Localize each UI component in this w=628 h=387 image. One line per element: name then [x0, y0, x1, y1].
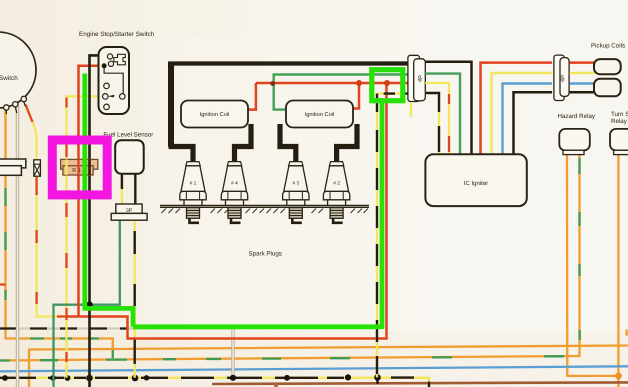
spark plug #4: [221, 162, 247, 223]
wire: yellow/red Y-R no.1 from switch terminal through fuse down, jog right at y=316.5: [26, 105, 67, 317]
svg-text:Ignition Coil: Ignition Coil: [200, 111, 230, 118]
svg-text:IC Igniter: IC Igniter: [464, 180, 488, 187]
svg-text:# 1: # 1: [190, 181, 197, 187]
wire: yellow to pickup coil 1: [570, 72, 596, 74]
svg-text:Spark Plugs: Spark Plugs: [249, 251, 282, 258]
junction dots on B/Y bus: [2, 374, 381, 384]
annotation: magenta highlight box: [52, 140, 107, 195]
wire: red stub at left edge: [0, 283, 6, 285]
wire: white wire vertical x=233 down to B/Y bus: [231, 329, 234, 378]
switch terminal stubs: [6, 102, 25, 114]
hazard relay: [559, 129, 590, 151]
wire: brown bus along bottom edge: [212, 382, 628, 384]
wire: black/white B-W dashed line, left bottom: [0, 327, 233, 329]
wire: HT lead coil2 to spark plug 2: [337, 124, 357, 162]
wire: black 4P to IC igniter: [425, 62, 471, 155]
wire: thick black top rail to 4P connector: [169, 61, 408, 65]
fuel level sensor body: [115, 140, 144, 174]
svg-text:Pickup Coils: Pickup Coils: [591, 43, 625, 50]
svg-text:Hazard Relay: Hazard Relay: [558, 113, 596, 120]
wire: yellow w/ black dash B-Y from 4P connector left, down to bus: [377, 94, 407, 378]
wire: red from right 4P down to IC igniter: [481, 63, 553, 155]
wire: yellow/red 4P to IC igniter: [425, 83, 449, 154]
wire: HT lead coil1 to spark plug 1: [169, 147, 194, 162]
svg-text:4P: 4P: [417, 75, 424, 83]
wire: green primary to coil 2 and to 4P connector: [274, 75, 408, 110]
wire: white wire from switch terminal down full height x=17.5: [16, 106, 19, 387]
turn signal relay (clipped at edge): [610, 129, 628, 151]
junction: dot inside stop switch on red feed: [102, 63, 107, 68]
wire: green 4P to IC igniter: [425, 74, 460, 155]
IC igniter box: [425, 154, 526, 206]
ground hatching: [162, 209, 369, 214]
svg-text:Turn Si: Turn Si: [611, 111, 628, 118]
svg-text:Ignition Coil: Ignition Coil: [305, 111, 335, 118]
wire: black/yellow B-Y from fuel sensor 3P down to bus: [134, 220, 136, 378]
ignition coil 1 body: [181, 101, 248, 128]
wire: fuel sensor right lead black: [134, 174, 136, 204]
engine stop/starter switch body: [99, 47, 130, 114]
spark plug #1: [180, 162, 206, 223]
svg-text:Relay: Relay: [611, 118, 628, 125]
svg-text:4P: 4P: [560, 75, 567, 83]
wire: HT lead coil2 to spark plug 3: [280, 124, 296, 162]
wire: green dashes on O/G left vertical: [6, 188, 113, 358]
annotation: green highlight box: [372, 70, 403, 101]
wire: red to pickup coil 1: [570, 61, 596, 64]
wire: blue bus across bottom: [0, 366, 628, 371]
wire: hazard relay left pin orange, down and jog right: [567, 155, 619, 376]
left multi-pin connector at edge: [0, 159, 26, 168]
3P connector: [116, 204, 142, 213]
wire: black/yellow 4P to IC igniter: [425, 93, 439, 154]
wire: black/yellow B-Y bottom bus: [0, 378, 429, 387]
pickup coil 1: [594, 59, 621, 74]
wire: blue to pickup coil 2: [570, 82, 596, 84]
wire: plain orange bus from bottom edge x=29 across page: [29, 346, 628, 387]
svg-text:Switch: Switch: [0, 75, 18, 82]
wire: small orange hook at right edge: [627, 330, 628, 335]
wires re-drawn over R4 connector: [65, 159, 67, 175]
ground bar under spark plugs: [160, 204, 369, 206]
svg-text:3P: 3P: [126, 208, 133, 214]
switch terminal circles: [4, 105, 9, 110]
wire: fuel sensor left lead black/yellow: [121, 174, 123, 204]
ignition coil 2 body: [286, 101, 353, 128]
wire: green dashes on O/G lower bus: [0, 158, 580, 361]
annotation: green highlight trace: [83, 74, 383, 330]
4P connector left (behind igniter wires): [408, 55, 425, 101]
svg-text:# 3: # 3: [292, 181, 299, 187]
svg-text:# 2: # 2: [333, 181, 340, 187]
spark plug #3: [283, 162, 309, 223]
pickup coil 2: [594, 79, 621, 97]
svg-text:Engine Stop/Starter Switch: Engine Stop/Starter Switch: [79, 31, 155, 38]
wire: yellow stub below left 4P connector: [410, 102, 412, 117]
wire: black to pickup coil 2: [570, 91, 596, 94]
wire: O/G horizontal bus lower, to hazard relay right pin: [0, 155, 580, 361]
fuse on Y/R wire: [34, 160, 41, 176]
4P connector right: [554, 55, 569, 100]
wire: thick black left drop beside ignition coil 1: [168, 62, 174, 147]
wire: teal green from fuel sensor 3P down, left and down to bottom: [54, 220, 120, 387]
wire: red primary rail y=83 with branches to both coils: [248, 83, 408, 110]
wire: black from right 4P down to IC igniter: [514, 92, 553, 154]
spark plug #2: [323, 162, 349, 223]
junction: red dots on primary rail: [356, 80, 362, 86]
junction: orange dot hazard jog / turn vertical: [615, 373, 622, 380]
wire: blue from right 4P down to IC igniter: [503, 84, 553, 155]
wire: HT lead coil1 to spark plug 4: [235, 124, 252, 162]
junction: black dot at teal crossing: [86, 301, 93, 308]
svg-text:# 4: # 4: [231, 181, 238, 187]
wire: yellow from right 4P down to IC igniter: [492, 73, 553, 154]
wire: orange/green O-G from ignition switch terminal, down left edge, jog right: [6, 109, 113, 359]
R4 connector (salmon): [61, 159, 98, 169]
wire: turn signal relay orange vertical: [617, 155, 619, 387]
engine stop/starter switch internals: [103, 54, 126, 110]
wire: black main from engine stop switch down to bottom edge: [90, 55, 100, 387]
wire: yellow/red Y-R no.2 from engine stop switch down to B/Y bus: [67, 96, 100, 377]
ignition switch circle (clipped at left edge): [0, 32, 36, 108]
wire: red main from engine stop switch, down left side then across bottom, up to junction: [67, 66, 387, 339]
